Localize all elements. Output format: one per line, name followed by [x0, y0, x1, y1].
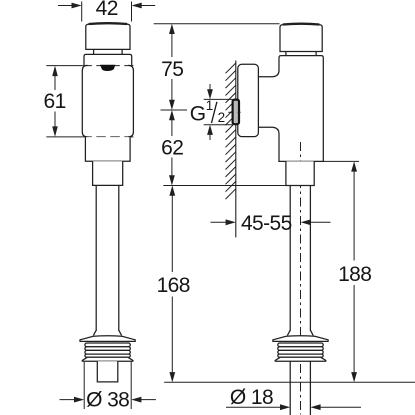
dim 45-55: right arrow: [309, 221, 331, 223]
pipe flare into rosette (right): [287, 330, 313, 335]
svg-text:2: 2: [218, 110, 226, 125]
dim 42: right arrow: [140, 5, 156, 7]
pipe flare into rosette (left): [93, 330, 121, 335]
dim 188: dimension line with arrows: [353, 171, 355, 261]
dim 61: extension lines: [46, 65, 82, 67]
rosette cap (right): [273, 336, 328, 342]
svg-text:Ø 38: Ø 38: [86, 388, 129, 411]
flush pipe (side view): [290, 186, 310, 332]
dim Ø18: left arrow with long shaft under text: [226, 406, 282, 408]
svg-text:188: 188: [338, 263, 371, 286]
outlet nut (side view): [286, 161, 314, 185]
GROHE logo blob: [100, 65, 115, 71]
wall hatching: [226, 63, 236, 199]
datum line at pipe ends: [164, 381, 415, 383]
dim 42: left arrow: [58, 5, 74, 7]
dim Ø18: right arrow: [319, 406, 361, 408]
valve body with inlet boss (side view): [258, 56, 323, 162]
svg-text:75: 75: [161, 58, 183, 81]
dim Ø38: right arrow: [139, 399, 156, 401]
rosette tail pipe (right, continues past datum): [290, 361, 310, 415]
push button knob (left view): [86, 23, 130, 49]
chrome sleeve (left view): [82, 65, 87, 136]
rosette skirt (left): [82, 357, 133, 361]
G 1/2 thread arrows: [209, 84, 211, 91]
push button knob (side view): [280, 24, 322, 52]
label G 1/2: [190, 98, 225, 125]
svg-text:62: 62: [161, 137, 183, 160]
wall flange / escutcheon (side view): [238, 64, 259, 136]
dim 75: top extension line (knob top level): [154, 23, 280, 25]
dim Ø38: extension lines: [83, 362, 85, 409]
dim 45-55: left arrow: [211, 221, 228, 223]
extension line at valve outlet level (62 bottom / 168 top): [163, 185, 286, 187]
flush pipe (left view): [96, 185, 119, 331]
nipple centre tick: [228, 111, 240, 113]
upper body band (left view): [84, 54, 132, 65]
dim 168: dimension line with arrows: [171, 195, 173, 273]
knob neck (side view): [286, 52, 316, 56]
shared extension line at G 1/2 centre level: [161, 109, 188, 111]
svg-text:G: G: [190, 102, 206, 125]
dim 62: dimension line with arrows: [169, 110, 175, 120]
rosette thread ribs (right): [278, 343, 323, 357]
wall surface line (also 45-55 left extension): [235, 61, 237, 238]
dashed line at sleeve bottom (61 dim reference): [82, 136, 133, 138]
dim Ø38: left arrow: [60, 399, 77, 401]
svg-text:Ø 18: Ø 18: [230, 386, 273, 409]
svg-text:45-55: 45-55: [241, 212, 292, 235]
dim 61: dimension line with arrows: [54, 75, 56, 91]
dashed line at sleeve top (61 dim reference): [82, 65, 133, 67]
centreline of pipe (side view): [300, 142, 302, 415]
rosette thread ribs (left): [85, 343, 130, 357]
rosette cap (left): [80, 336, 135, 342]
dim 42: extension lines: [81, 2, 83, 22]
G 1/2 threaded nipple: [233, 100, 239, 125]
lower body (left view): [85, 137, 130, 161]
svg-text:61: 61: [44, 90, 66, 113]
svg-text:42: 42: [96, 0, 118, 20]
knob neck (left view): [94, 49, 123, 54]
rosette tail pipe (left): [97, 361, 118, 382]
dim 188: top extension line (body bottom level): [323, 160, 359, 162]
outlet nut (left view): [93, 161, 123, 185]
svg-text:1: 1: [206, 98, 214, 113]
svg-text:168: 168: [157, 274, 190, 297]
G 1/2 thread leader lines: [204, 98, 233, 100]
rosette skirt (right): [275, 357, 326, 361]
dim 75: dimension line with arrows: [171, 33, 173, 57]
